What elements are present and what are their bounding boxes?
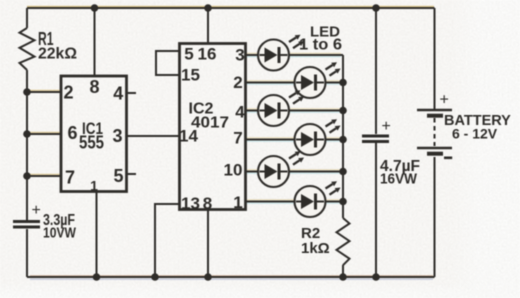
svg-text:1: 1 [90,178,98,194]
svg-text:1 to 6: 1 to 6 [299,37,342,54]
svg-text:7: 7 [65,168,75,188]
svg-text:16VW: 16VW [380,171,418,188]
svg-text:13: 13 [181,194,200,213]
svg-text:4: 4 [235,103,245,122]
svg-text:4: 4 [113,84,123,104]
svg-text:8: 8 [89,77,99,97]
svg-text:5: 5 [113,166,123,186]
svg-text:+: + [32,202,41,219]
svg-text:555: 555 [79,133,104,153]
svg-text:+: + [382,118,391,135]
svg-text:8: 8 [203,194,212,213]
svg-text:15: 15 [181,66,200,85]
svg-text:2: 2 [63,83,73,103]
svg-text:4017: 4017 [191,115,229,132]
svg-text:7: 7 [233,129,242,148]
svg-text:5: 5 [184,45,193,64]
svg-text:1kΩ: 1kΩ [301,240,330,257]
svg-text:10VW: 10VW [43,225,77,242]
svg-text:3: 3 [235,46,244,65]
svg-text:6 - 12V: 6 - 12V [452,126,498,142]
svg-text:6: 6 [67,123,77,143]
svg-text:10: 10 [224,161,243,180]
svg-text:2: 2 [233,73,242,92]
svg-text:22kΩ: 22kΩ [38,46,77,63]
svg-text:3: 3 [112,126,122,146]
svg-text:1: 1 [233,193,242,212]
svg-text:16: 16 [198,45,217,64]
svg-text:+: + [440,92,449,109]
